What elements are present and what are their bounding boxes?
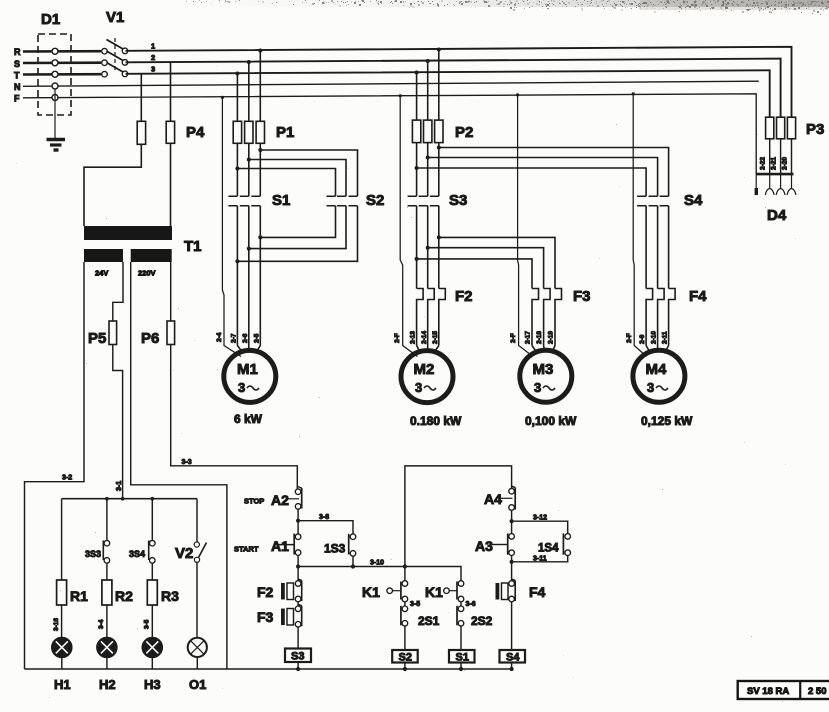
node rail-feed	[121, 497, 125, 501]
pole R	[102, 48, 108, 54]
contact 2S1	[401, 606, 440, 650]
svg-text:3: 3	[534, 380, 541, 395]
svg-text:2S2: 2S2	[471, 614, 493, 628]
title block	[738, 681, 829, 699]
pole T	[102, 71, 108, 77]
overload F4 power	[646, 288, 707, 346]
fuse P4b	[166, 121, 174, 143]
P2 fuses	[412, 48, 473, 143]
wire 3-6	[460, 601, 462, 606]
svg-text:0,125 kW: 0,125 kW	[641, 414, 693, 428]
wire 3-1	[113, 345, 123, 499]
wire tap f1 to S2c1	[237, 169, 335, 197]
svg-text:S1: S1	[272, 192, 290, 209]
svg-text:0.180 kW: 0.180 kW	[410, 414, 462, 428]
svg-text:2-18: 2-18	[536, 331, 543, 344]
node 3-12	[510, 519, 514, 523]
node rail-R2	[105, 497, 109, 501]
svg-text:H3: H3	[144, 677, 161, 692]
wire N-F-ground	[54, 89, 56, 138]
svg-text:2-6: 2-6	[242, 333, 249, 343]
svg-text:2S1: 2S1	[418, 614, 440, 628]
svg-text:2-F: 2-F	[394, 333, 401, 343]
svg-text:S4: S4	[684, 192, 703, 209]
svg-text:M3: M3	[533, 361, 554, 378]
wire sec220 right to fuse	[170, 262, 172, 321]
svg-text:R: R	[14, 47, 21, 57]
wire 3-5	[151, 605, 153, 638]
contact K1 right	[425, 581, 476, 608]
wire tap f2 to S2c2	[249, 160, 346, 197]
svg-text:F2: F2	[257, 584, 274, 600]
svg-text:2-4: 2-4	[216, 332, 223, 342]
wire	[106, 563, 108, 580]
wire tap f3 to S2c3	[260, 150, 357, 196]
secondary winding 24V	[84, 249, 123, 262]
wire f2 to S4c2	[428, 158, 658, 197]
svg-text:2 50: 2 50	[808, 686, 827, 697]
wire	[511, 601, 513, 650]
fuse P1b	[245, 121, 253, 143]
svg-text:S3: S3	[449, 192, 467, 209]
resistor R1	[57, 580, 67, 605]
svg-text:3S4: 3S4	[129, 549, 145, 559]
wire S to f2	[248, 62, 250, 121]
svg-text:T: T	[14, 71, 20, 81]
wire	[106, 499, 108, 541]
svg-text:2-10: 2-10	[651, 331, 658, 344]
P3 fuses	[760, 117, 825, 174]
wire c1 to M3c1	[417, 259, 532, 289]
svg-text:F3: F3	[257, 609, 274, 625]
wire line2 after V1	[126, 59, 781, 118]
svg-text:3-10: 3-10	[370, 560, 384, 567]
wire 3-10	[298, 560, 461, 582]
svg-text:3-5: 3-5	[410, 601, 420, 608]
svg-text:H1: H1	[54, 677, 71, 692]
svg-text:1S3: 1S3	[324, 542, 346, 556]
node rail-R3	[151, 497, 155, 501]
svg-text:P1: P1	[276, 124, 294, 141]
svg-text:3-16: 3-16	[53, 618, 60, 631]
svg-text:R1: R1	[70, 588, 88, 604]
svg-text:3: 3	[151, 65, 155, 74]
secondary winding 220V	[131, 249, 172, 262]
pole S	[102, 60, 108, 66]
fuse P3c	[787, 117, 795, 139]
wire	[196, 562, 198, 637]
wire S to fuse2	[170, 63, 172, 122]
wire	[196, 499, 198, 542]
svg-text:2-22: 2-22	[760, 157, 767, 170]
pushbutton A3	[475, 533, 514, 581]
wire fuse1 to T1	[84, 144, 141, 226]
svg-text:F3: F3	[573, 288, 591, 305]
svg-text:2-11: 2-11	[662, 331, 669, 344]
svg-text:2: 2	[151, 53, 155, 62]
svg-text:M4: M4	[646, 361, 667, 378]
svg-text:V2: V2	[175, 545, 193, 562]
wire to bus	[61, 657, 63, 669]
coil S4	[500, 650, 526, 671]
svg-text:2-5: 2-5	[254, 333, 261, 343]
wire R to f3	[438, 50, 440, 121]
wires below to motor	[236, 206, 238, 346]
svg-text:F2: F2	[455, 288, 473, 305]
wire S2c2 back to col2	[249, 206, 346, 249]
node 3-8	[296, 519, 300, 523]
ground	[47, 140, 66, 151]
svg-text:3-3: 3-3	[182, 459, 192, 466]
svg-text:V1: V1	[106, 9, 124, 26]
wire 3-16	[61, 605, 63, 638]
fuse P2a	[412, 120, 420, 143]
wire to bus	[196, 657, 198, 669]
contact K1 left	[362, 567, 420, 609]
fuse P3b	[777, 117, 785, 139]
contact ticks	[408, 196, 417, 206]
svg-text:2-F: 2-F	[626, 333, 633, 343]
pin 2	[780, 174, 782, 188]
lamp board rail	[62, 497, 197, 501]
P6 fuse	[141, 262, 297, 489]
coil S1	[449, 650, 475, 671]
pushbutton A4	[484, 486, 515, 534]
svg-text:S3: S3	[291, 651, 304, 663]
bottom bus	[25, 668, 514, 670]
svg-text:3: 3	[415, 380, 422, 395]
svg-text:24V: 24V	[95, 269, 108, 278]
wire f3 to S4c3	[439, 148, 669, 197]
wire sec220 left to bottom bus	[131, 262, 227, 669]
wire 3-2	[25, 262, 85, 669]
wire 3-12	[512, 515, 568, 535]
svg-text:A3: A3	[475, 538, 493, 554]
branch H3	[129, 499, 179, 692]
wire to bus	[106, 657, 108, 669]
svg-text:3-5: 3-5	[144, 619, 151, 629]
svg-text:A2: A2	[271, 492, 289, 508]
svg-text:6 kW: 6 kW	[234, 412, 263, 426]
pin 1	[769, 174, 771, 188]
contactor S1	[228, 143, 290, 345]
earth pin	[755, 174, 757, 188]
contactor S3	[408, 143, 468, 289]
node 3-10	[296, 564, 300, 568]
resistor R3	[147, 580, 157, 605]
M2 earth wire 2-F	[394, 94, 418, 356]
fuse P1a	[233, 121, 241, 143]
bar	[756, 173, 793, 176]
contact ticks	[327, 196, 336, 206]
contactor S4	[637, 192, 703, 289]
svg-text:1S4: 1S4	[538, 543, 559, 555]
svg-text:P3: P3	[806, 121, 824, 138]
svg-text:S1: S1	[456, 652, 469, 664]
lamp H3	[143, 638, 162, 657]
branch O1 with V2	[175, 499, 207, 692]
svg-text:R3: R3	[161, 588, 179, 604]
M3 earth wire 2-F	[510, 93, 533, 356]
wire 3-5	[404, 601, 406, 606]
lamp H1	[52, 638, 71, 657]
wire	[297, 601, 299, 606]
wire S input	[23, 61, 101, 64]
svg-text:A4: A4	[484, 491, 502, 507]
svg-text:H2: H2	[99, 677, 116, 692]
branch H2	[85, 499, 133, 692]
fuse P4a	[137, 121, 145, 144]
svg-text:3: 3	[647, 380, 654, 395]
wires below to F2	[416, 206, 418, 289]
contact 1S3	[324, 534, 356, 569]
contactor S2	[235, 148, 384, 263]
svg-text:S: S	[14, 59, 20, 69]
svg-text:1: 1	[151, 42, 155, 51]
linkage dashed	[114, 38, 116, 72]
primary winding	[84, 226, 172, 240]
wires fuse to contacts	[236, 143, 238, 196]
svg-text:S2: S2	[366, 192, 384, 209]
M4 earth wire 2-F	[626, 92, 647, 356]
wire line1 after V1	[126, 47, 792, 117]
svg-text:T1: T1	[184, 238, 202, 255]
svg-text:F4: F4	[689, 288, 707, 305]
contact 2S2	[457, 606, 493, 650]
wire 3-11	[512, 555, 568, 562]
svg-text:2-14: 2-14	[421, 331, 428, 344]
wire N full	[23, 81, 759, 86]
fuse P3a	[766, 117, 774, 139]
contact F4 control	[496, 579, 546, 650]
fuse P2c	[435, 120, 443, 143]
motor M4	[633, 331, 693, 428]
taps P2 to S4	[415, 146, 669, 197]
wire sec24 right to fuse	[113, 262, 123, 321]
svg-text:START: START	[234, 545, 259, 554]
svg-text:220V: 220V	[138, 269, 156, 278]
fuse P5	[109, 321, 117, 345]
svg-text:2-21: 2-21	[771, 157, 778, 170]
pushbutton A1 START	[234, 534, 301, 582]
fuse P6	[167, 321, 175, 345]
svg-text:F4: F4	[529, 584, 546, 600]
svg-text:2-19: 2-19	[548, 331, 555, 344]
svg-text:2-7: 2-7	[231, 333, 238, 343]
wire	[151, 563, 153, 580]
wire 3-4	[106, 605, 108, 638]
svg-text:3-4: 3-4	[98, 619, 105, 629]
pushbutton A2 STOP	[244, 487, 302, 535]
wire line3 after V1	[126, 70, 770, 117]
wire	[61, 499, 63, 580]
top rail A4	[405, 466, 512, 567]
wire T to f1	[236, 74, 238, 122]
wire fuse2 to T1	[170, 143, 172, 226]
wire down	[511, 555, 513, 581]
wire A2-A1	[297, 509, 299, 535]
svg-text:2-17: 2-17	[525, 331, 532, 344]
P4 fuses	[84, 63, 205, 227]
wire taper	[237, 346, 260, 354]
svg-text:P4: P4	[186, 124, 205, 141]
motor M3	[520, 331, 577, 428]
wire 3-3	[171, 345, 298, 489]
svg-text:2-9: 2-9	[639, 334, 646, 344]
svg-text:2-F: 2-F	[510, 333, 517, 343]
contact 1S4	[512, 533, 571, 562]
wire A1 down	[297, 555, 299, 581]
wire S2c1 back to col3	[260, 206, 335, 238]
svg-text:D4: D4	[767, 207, 787, 224]
wire S to f2	[427, 61, 429, 120]
resistor R2	[102, 580, 112, 605]
wire R input	[23, 50, 101, 53]
coil S2	[392, 650, 418, 671]
overload F3 power	[532, 288, 591, 346]
wire S2c3 back to col1	[237, 206, 357, 262]
wire 3-8	[298, 514, 353, 534]
svg-text:3: 3	[238, 380, 245, 395]
wires below to F4	[645, 206, 647, 289]
overload F2 power	[417, 288, 473, 346]
svg-text:A1: A1	[271, 538, 289, 554]
svg-text:S4: S4	[506, 652, 520, 664]
wire R to f3	[259, 51, 261, 122]
wire c3 to M3c3	[439, 237, 555, 288]
P5 fuse	[88, 262, 123, 499]
fuse P1c	[256, 121, 264, 143]
wire T to f1	[416, 73, 418, 121]
svg-text:3-2: 3-2	[62, 475, 72, 482]
svg-text:M1: M1	[237, 361, 258, 378]
svg-text:P5: P5	[88, 330, 106, 347]
wires to D4 bar	[769, 139, 771, 174]
wire F full	[23, 94, 756, 174]
svg-text:2-13: 2-13	[410, 331, 417, 344]
taps S3 to M3	[415, 235, 555, 288]
svg-text:3-1: 3-1	[116, 481, 123, 491]
svg-text:STOP: STOP	[244, 497, 264, 506]
svg-text:SV 18 RA: SV 18 RA	[747, 686, 789, 697]
contact F3 control	[257, 604, 302, 648]
wire	[297, 627, 299, 649]
branch H1	[52, 499, 88, 692]
socket D4	[755, 174, 796, 224]
motor M1	[224, 333, 276, 426]
svg-text:O1: O1	[189, 677, 206, 692]
lamp O1	[188, 638, 207, 657]
svg-text:F: F	[14, 94, 20, 104]
svg-text:3-6: 3-6	[466, 601, 476, 608]
svg-text:P6: P6	[141, 330, 159, 347]
wire 1S3 down	[352, 556, 354, 567]
coil S3	[285, 649, 311, 672]
P1 fuses	[233, 49, 294, 144]
wire c2 to M3c2	[428, 248, 544, 289]
contact F2 control	[257, 579, 302, 606]
lamp H2	[97, 638, 116, 657]
wire T input	[23, 73, 101, 76]
svg-text:3-12: 3-12	[533, 515, 547, 522]
T1 transformer	[84, 226, 202, 278]
svg-text:M2: M2	[414, 361, 435, 378]
wire f1 to S4c1	[417, 168, 646, 196]
contact ticks	[637, 196, 646, 206]
svg-text:3S3: 3S3	[85, 549, 101, 559]
fuse P2b	[424, 120, 432, 143]
MAIN BUSES	[14, 47, 792, 174]
svg-text:0,100 kW: 0,100 kW	[525, 414, 577, 428]
wire A4 down	[511, 510, 513, 534]
V1 main switch	[102, 9, 155, 77]
svg-text:R2: R2	[115, 588, 133, 604]
wires fuse to contacts	[416, 143, 418, 197]
svg-text:K1: K1	[362, 584, 380, 600]
contact ticks	[228, 196, 237, 206]
svg-text:K1: K1	[425, 584, 443, 600]
svg-text:2-15: 2-15	[432, 331, 439, 344]
motor M2	[401, 331, 462, 428]
svg-text:D1: D1	[41, 11, 60, 28]
svg-text:S2: S2	[399, 652, 412, 664]
svg-text:2-20: 2-20	[782, 157, 789, 170]
D1 terminal block	[38, 11, 71, 138]
wire to bus	[151, 657, 153, 669]
svg-text:N: N	[14, 82, 21, 92]
svg-text:P2: P2	[455, 124, 473, 141]
wire T to fuse1	[140, 74, 142, 121]
svg-text:3-8: 3-8	[319, 514, 329, 521]
pin 3	[791, 174, 793, 188]
svg-text:3-11: 3-11	[533, 556, 547, 563]
wire	[151, 499, 153, 541]
M1 earth wire 2-4	[216, 96, 241, 357]
